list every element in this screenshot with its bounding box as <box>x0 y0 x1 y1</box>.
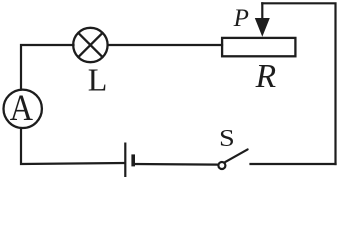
svg-text:R: R <box>255 58 276 95</box>
wire <box>108 44 222 46</box>
wire <box>135 163 218 166</box>
svg-text:P: P <box>233 5 249 32</box>
label A <box>10 88 33 129</box>
wiper arrow P <box>255 18 270 37</box>
switch S: pivot circle <box>218 162 225 169</box>
wire <box>21 129 125 164</box>
wire <box>262 3 335 164</box>
battery cell: short thick plate <box>131 154 135 166</box>
resistor R <box>222 38 295 56</box>
lamp L <box>73 28 107 62</box>
wire <box>21 45 74 89</box>
battery cell: long plate <box>124 143 126 178</box>
svg-text:S: S <box>219 125 235 152</box>
label S <box>219 125 235 152</box>
switch S: blade <box>225 149 248 162</box>
svg-text:L: L <box>88 62 108 98</box>
svg-text:A: A <box>10 88 33 129</box>
wire <box>251 163 336 165</box>
ammeter A <box>4 90 42 128</box>
wire <box>261 3 263 20</box>
